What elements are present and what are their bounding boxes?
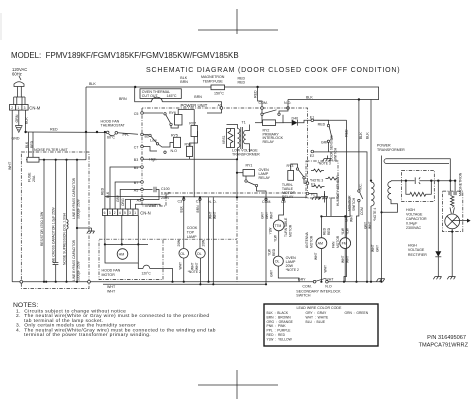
wire monitor to bus	[357, 213, 359, 282]
svg-text:FM: FM	[342, 242, 347, 246]
svg-text:N.O: N.O	[325, 285, 332, 289]
noise filter unit box	[21, 152, 89, 289]
svg-text:C100: C100	[161, 187, 170, 191]
svg-text:YLW: YLW	[341, 227, 345, 235]
svg-text:ANTENNA: ANTENNA	[305, 231, 309, 248]
svg-text:BRN: BRN	[119, 97, 127, 101]
svg-text:SWITCH: SWITCH	[352, 197, 356, 211]
resistor bleeder	[406, 181, 431, 197]
svg-text:WHT: WHT	[341, 255, 345, 263]
svg-text:RED: RED	[322, 227, 326, 235]
wire C9 drop WHT	[279, 197, 284, 220]
svg-text:BLK: BLK	[180, 205, 184, 212]
lamp OL oven	[273, 256, 283, 266]
svg-text:N.C.: N.C.	[359, 183, 363, 190]
svg-text:3300pF 250V: 3300pF 250V	[76, 198, 80, 219]
svg-text:WHT: WHT	[325, 278, 334, 282]
wire BLK from CN-M	[25, 110, 27, 132]
svg-text:WHT: WHT	[324, 265, 328, 273]
svg-text:*NOTE 2: *NOTE 2	[188, 270, 201, 274]
wire GRN	[18, 110, 20, 125]
svg-text:NOISE FILTER UNIT: NOISE FILTER UNIT	[34, 148, 68, 152]
svg-text:YLW : YELLOW: YLW : YELLOW	[267, 337, 293, 341]
magnetron tube	[445, 214, 460, 229]
svg-text:CAPACITOR: CAPACITOR	[406, 217, 427, 221]
svg-text:RELAY: RELAY	[263, 140, 275, 144]
svg-text:A1: A1	[218, 103, 222, 107]
svg-text:GRY: GRY	[375, 244, 379, 252]
svg-text:MOTOR: MOTOR	[309, 235, 313, 248]
svg-text:TRANSFORMER: TRANSFORMER	[232, 153, 260, 157]
terminal A5	[141, 188, 144, 191]
svg-text:RED: RED	[253, 90, 257, 98]
varistor VRS1	[227, 129, 235, 148]
funnel	[450, 208, 451, 214]
registration cross top	[198, 9, 278, 34]
svg-text:MOTOR: MOTOR	[102, 273, 116, 277]
svg-text:YLW: YLW	[273, 234, 277, 242]
terminal C3	[183, 198, 185, 200]
svg-text:WHT: WHT	[107, 289, 116, 293]
svg-text:POWER UNIT: POWER UNIT	[181, 103, 208, 108]
svg-text:HUMIDITY SENSOR: HUMIDITY SENSOR	[336, 175, 340, 206]
svg-text:TURNTABLE: TURNTABLE	[284, 217, 288, 237]
registration cross bottom	[198, 370, 278, 399]
svg-text:RED: RED	[50, 128, 58, 132]
lead wire color code box	[264, 304, 378, 346]
wire C1 drop BRN	[199, 197, 201, 248]
svg-text:GRY: GRY	[116, 194, 120, 202]
svg-text:T1: T1	[242, 120, 246, 124]
door sensing switch	[314, 120, 329, 124]
ground at E3/F1	[309, 194, 317, 198]
svg-text:RED: RED	[30, 140, 34, 148]
motor AM antenna	[326, 198, 328, 217]
connector CN-N	[102, 209, 150, 216]
svg-text:TRANSFORMER: TRANSFORMER	[377, 148, 405, 152]
terminal B7	[141, 181, 144, 184]
core wire	[381, 156, 383, 282]
terminal E3	[306, 182, 309, 185]
svg-text:YLW: YLW	[269, 227, 273, 235]
svg-text:MONITOR: MONITOR	[348, 195, 352, 211]
svg-text:LAMP: LAMP	[187, 235, 197, 239]
fuse F1 20A	[26, 159, 86, 161]
svg-text:20W: 20W	[177, 239, 181, 247]
terminal B1	[141, 133, 144, 136]
svg-text:COM.: COM.	[262, 200, 271, 204]
svg-text:6.8µF: 6.8µF	[161, 192, 171, 196]
motor HM hood fan	[105, 244, 138, 263]
svg-text:*NOTE 2: *NOTE 2	[286, 268, 299, 272]
primary coil	[370, 180, 372, 182]
svg-text:RED: RED	[272, 248, 276, 256]
wire T1 to mid bus	[236, 159, 238, 196]
wire CN-N pin4 riser	[120, 190, 141, 210]
terminal A3	[141, 198, 144, 201]
svg-text:C5: C5	[134, 112, 139, 116]
svg-text:6: 6	[104, 211, 106, 215]
ground magnetron	[451, 229, 453, 277]
relay RY2 coil	[261, 115, 263, 122]
svg-text:60°C: 60°C	[107, 136, 115, 140]
svg-text:WHT: WHT	[314, 252, 318, 260]
svg-text:C3: C3	[178, 200, 183, 204]
svg-text:TTM: TTM	[275, 224, 282, 228]
svg-text:WHT: WHT	[107, 285, 116, 289]
svg-text:HIGH: HIGH	[408, 243, 417, 247]
svg-text:WHT: WHT	[270, 211, 274, 219]
svg-text:VRS1: VRS1	[222, 135, 226, 144]
svg-text:FUSE: FUSE	[28, 172, 32, 182]
T1 secondary coil	[244, 131, 246, 144]
terminal E1	[314, 119, 347, 121]
capacitor high voltage box	[402, 170, 435, 201]
wire mid neutral bus	[105, 196, 308, 199]
filament coil	[451, 196, 455, 208]
terminal C9	[282, 198, 284, 200]
svg-text:BLK: BLK	[366, 132, 370, 139]
wire TTM to OL	[278, 231, 280, 256]
svg-text:C7: C7	[134, 146, 139, 150]
svg-text:2: 2	[11, 106, 13, 110]
svg-text:VOLTAGE: VOLTAGE	[406, 213, 423, 217]
svg-text:N.O: N.O	[171, 149, 178, 153]
svg-text:PPL: PPL	[123, 133, 130, 137]
svg-text:SWITCH: SWITCH	[296, 294, 311, 298]
wire GRN from E2	[314, 151, 329, 153]
svg-text:LEAD WIRE COLOR CODE: LEAD WIRE COLOR CODE	[297, 306, 343, 310]
terminal F1	[306, 192, 309, 195]
diode D40	[283, 122, 292, 124]
svg-text:OL: OL	[275, 260, 280, 264]
terminal COM	[265, 198, 267, 200]
svg-text:GRY: GRY	[261, 211, 265, 219]
svg-text:BRN: BRN	[180, 80, 188, 84]
svg-text:SWITCH: SWITCH	[334, 147, 338, 161]
wire OL to interlock	[278, 266, 299, 282]
svg-text:BLU : BLUE: BLU : BLUE	[306, 320, 326, 324]
svg-text:WHT: WHT	[371, 244, 375, 252]
svg-text:GRY: GRY	[298, 278, 306, 282]
filament winding loop	[384, 159, 449, 164]
svg-text:RY1: RY1	[246, 163, 253, 167]
svg-text:BLK : BLACK: BLK : BLACK	[267, 311, 289, 315]
svg-text:4: 4	[119, 211, 121, 215]
svg-text:D40: D40	[292, 116, 299, 120]
svg-text:RED: RED	[327, 227, 331, 235]
wire C3 drop BLK	[183, 197, 185, 248]
svg-text:COM.: COM.	[259, 101, 268, 105]
svg-text:145°C: 145°C	[167, 94, 177, 98]
svg-text:HM: HM	[119, 253, 125, 257]
svg-text:FAN: FAN	[332, 241, 336, 248]
ground humidity top	[327, 156, 329, 159]
wire CN-N pin3 riser	[110, 167, 141, 209]
svg-text:terminal of the power transfor: terminal of the power transformer primar…	[24, 332, 151, 338]
wire RED horizontal bus	[26, 131, 107, 133]
svg-text:*NOTE 4: *NOTE 4	[373, 208, 377, 221]
ground humidity bottom	[324, 194, 326, 197]
svg-text:RES/STOR 470Ω 1/2W: RES/STOR 470Ω 1/2W	[40, 211, 44, 246]
wire high voltage bus	[391, 180, 455, 182]
terminal E2	[311, 150, 314, 153]
svg-text:P/N 316495067: P/N 316495067	[427, 335, 466, 341]
svg-text:3: 3	[24, 106, 26, 110]
wire BLK risers right	[358, 100, 360, 190]
svg-text:GRY: GRY	[364, 221, 368, 229]
svg-text:WHT: WHT	[178, 262, 182, 270]
svg-text:ORG : ORANGE: ORG : ORANGE	[267, 320, 294, 324]
wire bottom of filter	[12, 281, 313, 283]
svg-text:WHT: WHT	[213, 211, 217, 219]
switch secondary interlock	[313, 280, 316, 283]
capacitor line bypass pair	[76, 160, 78, 282]
wire A1 into relays	[207, 109, 222, 113]
svg-text:5: 5	[124, 211, 126, 215]
svg-text:OL: OL	[180, 252, 185, 256]
terminal B3	[141, 158, 144, 161]
svg-text:GRN: GRN	[15, 114, 19, 122]
filament terminals	[448, 191, 452, 195]
wire RED drop to RY2	[258, 87, 262, 107]
terminal A1	[220, 107, 223, 110]
svg-text:GRY: GRY	[270, 269, 274, 277]
svg-text:RY3: RY3	[287, 164, 294, 168]
svg-text:NOISE SUPRESSION COIL 1.0mH: NOISE SUPRESSION COIL 1.0mH	[63, 212, 67, 265]
svg-text:BLK: BLK	[25, 117, 29, 124]
svg-text:150°C: 150°C	[214, 91, 224, 95]
svg-text:B1: B1	[145, 135, 149, 139]
svg-text:BLK: BLK	[359, 132, 363, 139]
svg-text:AM: AM	[318, 242, 323, 246]
svg-text:MOTOR: MOTOR	[289, 224, 293, 237]
wire CN-N pin6 riser RED	[104, 132, 106, 209]
svg-text:WHT: WHT	[368, 221, 372, 229]
svg-text:60Hz: 60Hz	[12, 72, 22, 77]
svg-text:MAGNETRON: MAGNETRON	[459, 172, 463, 196]
svg-text:MODEL: FPMV189KF/FGMV185KF/FG: MODEL: FPMV189KF/FGMV185KF/FGMV185KW/FGM…	[11, 51, 239, 60]
svg-text:ORG: ORG	[121, 198, 125, 206]
svg-text:WHT: WHT	[349, 214, 353, 222]
svg-text:BRN: BRN	[196, 205, 200, 213]
svg-text:BRN : BROWN: BRN : BROWN	[267, 315, 292, 319]
svg-text:WHT: WHT	[195, 262, 199, 270]
humidity sensor box	[306, 161, 338, 198]
svg-text:COM.: COM.	[302, 285, 311, 289]
svg-text:COM: COM	[360, 207, 364, 215]
svg-text:BLK: BLK	[25, 141, 29, 148]
svg-text:3: 3	[109, 211, 111, 215]
wire N.O. pair drop WHT WHT	[208, 197, 210, 282]
chassis ground stub	[77, 227, 92, 229]
svg-text:THERMOSTAT: THERMOSTAT	[101, 124, 126, 128]
wire BLK riser to top bus	[85, 87, 87, 160]
svg-text:GRY : GRAY: GRY : GRAY	[306, 311, 328, 315]
svg-text:*NOTE 3: *NOTE 3	[318, 162, 331, 166]
wire CN-N pin1 riser WHT	[136, 204, 161, 209]
secondary coil	[388, 182, 391, 200]
ground GND	[15, 126, 22, 133]
svg-text:20A: 20A	[32, 175, 36, 182]
svg-text:TEMP.FUSE: TEMP.FUSE	[203, 79, 224, 83]
lamp cook top 2	[196, 249, 206, 259]
svg-text:RY7: RY7	[189, 122, 196, 126]
rectifier high voltage	[437, 181, 439, 252]
svg-text:120°C: 120°C	[142, 272, 152, 276]
svg-text:RED: RED	[318, 123, 326, 127]
wire CN-N pin6b riser	[129, 200, 131, 210]
power unit box	[142, 108, 308, 206]
wire RED drop into filter	[32, 132, 34, 160]
svg-text:GND: GND	[12, 137, 20, 141]
ground transformer	[377, 279, 385, 282]
T1 primary coil	[238, 129, 240, 148]
thermostat oven thermal cut out 145C	[135, 87, 152, 102]
svg-text:WHT: WHT	[8, 161, 12, 170]
power plug P1	[14, 76, 25, 105]
wire CN-N pin2 riser	[115, 182, 141, 209]
svg-text:GRY: GRY	[265, 211, 269, 219]
svg-text:N. O.: N. O.	[208, 200, 216, 204]
connector CN-M	[10, 105, 41, 111]
svg-text:2300VAC: 2300VAC	[406, 226, 422, 230]
svg-text:NOTES:: NOTES:	[13, 302, 38, 309]
motor TTM turntable	[273, 220, 284, 231]
inductor noise suppression coil	[66, 160, 68, 220]
svg-text:GRN : GREEN: GRN : GREEN	[345, 311, 369, 315]
antenna arrow	[452, 220, 467, 222]
wire WHT neutral (left long vertical)	[11, 110, 13, 282]
magnetron box	[443, 191, 463, 232]
svg-text:2: 2	[114, 211, 116, 215]
svg-text:1: 1	[134, 211, 136, 215]
svg-text:PNK : PINK: PNK : PINK	[267, 324, 287, 328]
svg-text:RECTIFIER: RECTIFIER	[408, 253, 427, 257]
wire CN-N pin5 riser	[125, 200, 141, 210]
wire interlock to right	[328, 281, 380, 283]
wire COM drop GRY GRY	[265, 197, 267, 284]
svg-text:BLK: BLK	[306, 96, 313, 100]
svg-text:1: 1	[17, 106, 19, 110]
svg-text:SCHEMATIC DIAGRAM (DOOR CLOSED: SCHEMATIC DIAGRAM (DOOR CLOSED COOK OFF …	[146, 67, 400, 74]
svg-text:E2: E2	[310, 154, 314, 158]
svg-text:SECONDARY INTERLOCK: SECONDARY INTERLOCK	[296, 289, 341, 293]
svg-text:20W: 20W	[201, 239, 205, 247]
wire BLK drop into filter	[28, 132, 30, 160]
svg-text:CN-N: CN-N	[140, 211, 150, 216]
relay RY2 contacts COM NO	[261, 107, 264, 110]
motor FM fan	[344, 216, 346, 237]
svg-text:High: High	[149, 157, 156, 161]
svg-text:WHT: WHT	[190, 262, 194, 270]
svg-text:0.94µF: 0.94µF	[406, 221, 418, 225]
svg-text:3300pF 250V: 3300pF 250V	[76, 260, 80, 281]
svg-text:E1: E1	[310, 115, 314, 119]
wire hood fan feeds	[104, 215, 106, 244]
svg-text:HIGH: HIGH	[406, 208, 415, 212]
node RED bus junction	[24, 131, 26, 133]
resistor sensor 2	[326, 177, 338, 180]
wire RED from E1 down to interlock	[344, 120, 347, 281]
resistor 470 ohm	[43, 160, 45, 282]
capacitor line cross 1.0uF	[55, 160, 57, 263]
svg-text:RED : RED: RED : RED	[267, 333, 286, 337]
resistor sensor 1	[311, 169, 324, 172]
svg-text:RED: RED	[101, 187, 105, 195]
svg-text:RELAY: RELAY	[259, 176, 271, 180]
wire second neutral bus	[103, 283, 266, 285]
svg-text:YLW: YLW	[267, 248, 271, 256]
svg-text:MOTOR: MOTOR	[336, 235, 340, 248]
svg-text:A5: A5	[134, 189, 138, 193]
hood fan motor box	[99, 239, 163, 279]
svg-text:TMAPCA791WRRZ: TMAPCA791WRRZ	[419, 343, 469, 349]
capacitor C100	[143, 189, 152, 191]
svg-text:B7: B7	[134, 181, 138, 185]
svg-text:PPL : PURPLE: PPL : PURPLE	[267, 329, 292, 333]
svg-text:B5: B5	[134, 166, 138, 170]
svg-text:LINE CROSS CAPACITOR 1.0µF 25: LINE CROSS CAPACITOR 1.0µF 250V	[52, 206, 56, 265]
svg-text:3: 3	[129, 211, 131, 215]
svg-text:CN-M: CN-M	[29, 105, 40, 110]
wire top bus BLK	[86, 87, 379, 100]
svg-text:VOLTAGE: VOLTAGE	[408, 248, 425, 252]
terminal C5	[141, 112, 144, 115]
ground rectifier	[433, 277, 441, 280]
capacitor symbol inline	[415, 177, 418, 184]
svg-text:B3: B3	[134, 158, 138, 162]
svg-text:OL: OL	[197, 252, 202, 256]
svg-text:BLK: BLK	[89, 82, 96, 86]
terminal C7	[141, 145, 144, 148]
svg-text:POWER: POWER	[377, 144, 391, 148]
svg-text:RED: RED	[238, 80, 246, 84]
svg-text:BRN: BRN	[194, 95, 202, 99]
svg-text:Low: Low	[150, 139, 157, 143]
svg-text:WHT : WHITE: WHT : WHITE	[306, 315, 330, 319]
thermal protector 120C	[138, 263, 143, 269]
svg-text:A3: A3	[137, 199, 141, 203]
node filter top junctions	[43, 159, 45, 161]
terminal C1	[199, 198, 201, 200]
terminal B5	[141, 166, 144, 169]
wire primary bottom WHT	[370, 206, 372, 282]
